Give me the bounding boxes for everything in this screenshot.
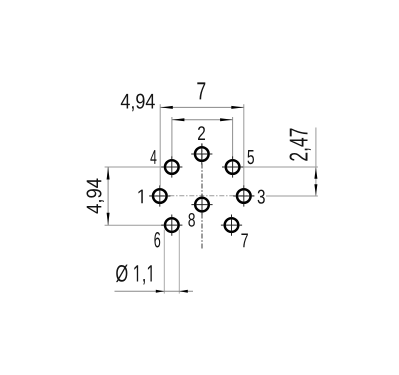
wire: extension line up from pin 1 — [159, 104, 161, 185]
dimension label 7 (top) — [197, 82, 205, 99]
dimension line 4,94 (left vertical) — [107, 167, 110, 225]
pin 2 — [191, 143, 212, 164]
wire: extension line left from pin 4 — [105, 166, 164, 168]
dimension label 4,94 (left, rotated) — [86, 179, 104, 214]
pin 5 — [222, 156, 243, 177]
dimension line 2,47 (right vertical) — [314, 128, 317, 197]
pin 3 label — [258, 190, 265, 204]
pin 4 label — [150, 150, 156, 164]
wire: horizontal centerline through pins 1 and 3 — [149, 195, 254, 197]
wire: extension line up from pin 3 — [243, 104, 245, 185]
pin 7 — [221, 215, 242, 236]
wire: extension line up from pin 4 — [171, 117, 173, 158]
pin 5 label — [247, 150, 253, 164]
dimension label Ø 1,1 (bottom) — [116, 265, 152, 285]
dimension line 7 (top) — [160, 106, 244, 109]
pin 8 — [191, 194, 212, 215]
pin 4 — [161, 156, 182, 177]
pin 7 label — [241, 234, 247, 248]
wire: tangent extension line down from pin 6 left — [163, 230, 165, 294]
pin 2 label — [198, 126, 205, 140]
wire: extension line left from pin 6 — [105, 224, 164, 226]
pin 1 label — [138, 190, 142, 204]
dimension label 4,94 (top) — [121, 94, 155, 112]
wire: tangent extension line down from pin 6 right — [178, 230, 180, 294]
pin 6 label — [154, 232, 160, 248]
dimension line 4,94 (top) — [172, 118, 233, 121]
wire: extension line right from pin 5 — [243, 166, 318, 168]
wire: extension line right from pin 3 — [266, 195, 318, 197]
pin 3 — [233, 185, 254, 206]
pin 1 — [149, 185, 170, 206]
dimension line Ø 1,1 (bottom) — [115, 290, 194, 293]
dimension label 2,47 (right, rotated) — [289, 128, 310, 160]
wire: extension line up from pin 5 — [232, 117, 234, 158]
wire: vertical centerline through pins 2 and 8 — [201, 144, 203, 250]
pin 6 — [161, 215, 182, 236]
pin 8 label — [188, 213, 194, 227]
